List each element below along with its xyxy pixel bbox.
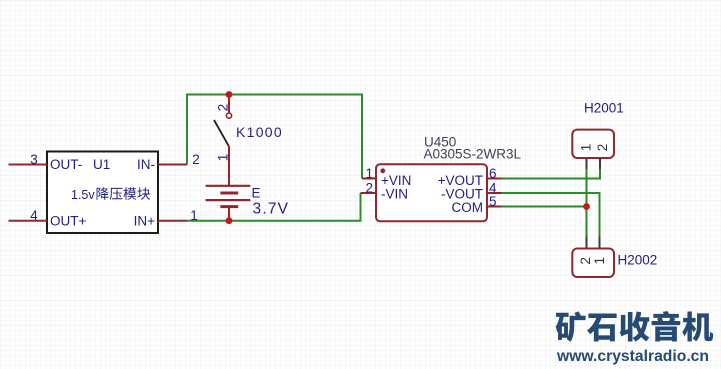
U450 pin 6 stub (+VOUT) [487, 178, 502, 180]
U450 refdes label [424, 135, 456, 150]
wire net top: battery+ / switch to U450 +VIN [187, 95, 362, 179]
svg-text:COM: COM [452, 200, 484, 215]
svg-text:2: 2 [216, 104, 231, 112]
svg-text:1: 1 [365, 166, 373, 181]
K1000 pin number 1 (rotated) [216, 154, 231, 162]
H2002 pin 1 stub [599, 237, 601, 249]
wire COM to junction [501, 206, 587, 208]
svg-text:1: 1 [190, 208, 198, 223]
H2002 pin number 2 (rotated) [578, 257, 593, 265]
svg-text:-VIN: -VIN [381, 186, 408, 201]
U450 pin name -VOUT [441, 186, 483, 201]
H2001 pin 1 stub [586, 158, 588, 169]
U450 pin name COM [452, 200, 484, 215]
switch K1000 [214, 95, 232, 186]
svg-text:H2001: H2001 [584, 101, 624, 116]
U1 pin name IN+ [134, 214, 156, 229]
svg-text:2: 2 [192, 152, 200, 167]
svg-text:2: 2 [578, 257, 593, 265]
U1 pin number 2 [192, 152, 200, 167]
U1 value label 1.5v降压模块 [71, 187, 150, 202]
connector H2002 [572, 249, 614, 278]
H2002 pin number 1 (rotated) [592, 257, 607, 265]
U450 pin 2 stub (-VIN) [361, 192, 377, 194]
svg-text:IN-: IN- [137, 157, 155, 172]
watermark logo 矿石收音机 [556, 311, 714, 342]
K1000 pin number 2 (rotated) [216, 104, 231, 112]
svg-text:E: E [252, 185, 261, 200]
U450 pin name +VOUT [438, 173, 483, 188]
battery refdes E [252, 185, 261, 200]
U1 pin number 3 [30, 152, 38, 167]
U450 pin number 2 [365, 181, 373, 196]
svg-text:www.crystalradio.cn: www.crystalradio.cn [556, 348, 709, 365]
watermark url www.crystalradio.cn [556, 348, 709, 365]
H2002 pin 2 stub [586, 237, 588, 249]
battery value 3.7V [253, 201, 290, 218]
svg-text:1: 1 [216, 154, 231, 162]
U1 pin 3 stub (OUT-) [9, 164, 48, 166]
junction dot at battery bottom [226, 217, 233, 224]
U1 refdes U1 [93, 157, 110, 172]
wire -VOUT to H2002 pin 1 [501, 193, 600, 237]
svg-text:3.7V: 3.7V [253, 201, 290, 218]
svg-text:3: 3 [30, 152, 38, 167]
U1 pin 1 stub (IN+) [158, 220, 187, 222]
junction dot at switch top [226, 91, 233, 98]
K1000 refdes label [236, 124, 283, 140]
U1 pin number 1 [190, 208, 198, 223]
U1 pin name OUT+ [50, 214, 86, 229]
U1 pin number 4 [30, 208, 38, 223]
connector H2001 [572, 130, 614, 158]
U1 pin 4 stub (OUT+) [9, 220, 48, 222]
U1 pin name IN- [137, 157, 155, 172]
U450 pin number 5 [489, 194, 497, 209]
svg-text:2: 2 [365, 181, 373, 196]
svg-text:2: 2 [595, 144, 610, 152]
U450 pin 4 stub (-VOUT) [487, 192, 502, 194]
H2001 pin 2 stub [599, 158, 601, 169]
U450 pin number 4 [489, 181, 497, 196]
svg-text:1: 1 [592, 257, 607, 265]
junction dot COM / H2001.1 / H2002.2 [583, 203, 590, 210]
H2001 pin number 2 (rotated) [595, 144, 610, 152]
svg-text:1.5v: 1.5v [71, 188, 95, 202]
wire net bottom: battery- to U450 -VIN [187, 193, 361, 221]
component U1: 1.5v buck module [47, 152, 158, 234]
U450 pin name +VIN [381, 173, 411, 188]
U450 pin 5 stub (COM) [487, 206, 502, 208]
wire +VOUT to H2001 pin 2 [501, 169, 600, 179]
svg-text:U1: U1 [93, 157, 110, 172]
svg-text:5: 5 [489, 194, 497, 209]
svg-text:H2002: H2002 [618, 253, 658, 268]
U450 pin 1 stub (+VIN) [362, 178, 376, 180]
H2001 pin number 1 (rotated) [578, 144, 593, 152]
U450 pin number 1 [365, 166, 373, 181]
svg-text:1: 1 [578, 144, 593, 152]
svg-text:6: 6 [489, 166, 497, 181]
H2002 refdes label [618, 253, 658, 268]
U450 value label A0305S-2WR3L [424, 147, 522, 162]
U450 pin name -VIN [381, 186, 408, 201]
svg-text:A0305S-2WR3L: A0305S-2WR3L [424, 147, 522, 162]
H2001 refdes label [584, 101, 624, 116]
svg-text:4: 4 [30, 208, 38, 223]
battery E [206, 186, 251, 221]
svg-text:OUT+: OUT+ [50, 214, 86, 229]
svg-text:IN+: IN+ [134, 214, 156, 229]
wire H2001 pin 1 to H2002 pin 2 [586, 169, 588, 237]
U1 pin name OUT- [50, 157, 82, 172]
U450 pin number 6 [489, 166, 497, 181]
svg-text:OUT-: OUT- [50, 157, 82, 172]
converter U450 A0305S-2WR3L [376, 164, 487, 221]
U1 pin 2 stub (IN-) [158, 164, 187, 166]
svg-text:K1000: K1000 [236, 124, 283, 140]
